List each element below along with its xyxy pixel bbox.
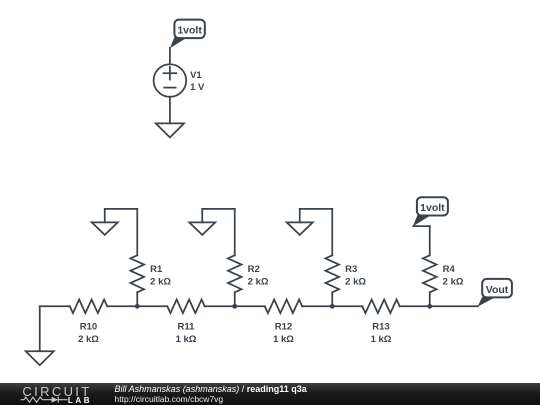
- wire ladder right segment to Vout: [400, 305, 478, 307]
- svg-text:R1: R1: [150, 264, 163, 275]
- wire: [302, 305, 362, 307]
- wire left drop: [39, 306, 41, 351]
- svg-text:R13: R13: [372, 322, 389, 333]
- ground (above R3): [287, 222, 313, 235]
- svg-text:1 V: 1 V: [190, 82, 205, 93]
- wire R2 branch bottom: [234, 292, 236, 306]
- wire top jog: [105, 208, 138, 210]
- wire: [205, 305, 265, 307]
- svg-text:1 kΩ: 1 kΩ: [371, 334, 392, 345]
- svg-text:http://circuitlab.com/cbcw7vg: http://circuitlab.com/cbcw7vg: [115, 394, 224, 404]
- ground (above R1): [92, 222, 118, 235]
- svg-text:R11: R11: [178, 322, 196, 333]
- CircuitLab logo diode arrow: [52, 397, 59, 403]
- wire R3 branch bottom: [331, 292, 333, 306]
- wire top jog: [202, 208, 235, 210]
- node junction x=429.75: [427, 304, 432, 309]
- svg-text:2 kΩ: 2 kΩ: [345, 277, 366, 288]
- svg-text:2 kΩ: 2 kΩ: [443, 277, 464, 288]
- svg-text:R4: R4: [443, 264, 456, 275]
- svg-text:2 kΩ: 2 kΩ: [150, 277, 171, 288]
- wire R4 top jog: [413, 225, 430, 227]
- svg-text:1 kΩ: 1 kΩ: [176, 334, 197, 345]
- svg-text:Vout: Vout: [486, 284, 509, 296]
- svg-text:2 kΩ: 2 kΩ: [78, 334, 99, 345]
- ground (below V1): [156, 123, 184, 137]
- net flag 1volt box (top): [174, 20, 204, 38]
- node junction x=234.75: [232, 304, 237, 309]
- resistor R10: [70, 300, 107, 314]
- svg-text:1 kΩ: 1 kΩ: [273, 334, 294, 345]
- voltage source V1: [154, 64, 187, 97]
- net flag 1volt (R4) tail: [413, 215, 432, 227]
- node junction x=137.25: [135, 304, 140, 309]
- net flag Vout tail: [478, 297, 497, 307]
- resistor R3: [325, 255, 339, 292]
- svg-text:V1: V1: [190, 70, 202, 81]
- resistor R4: [423, 255, 437, 292]
- wire top jog: [300, 208, 333, 210]
- svg-text:LAB: LAB: [68, 396, 92, 405]
- resistor R12: [265, 300, 302, 314]
- wire V1 top: [169, 48, 171, 64]
- resistor R11: [167, 300, 204, 314]
- svg-text:1volt: 1volt: [177, 25, 202, 37]
- net flag Vout box: [482, 279, 512, 298]
- svg-text:R10: R10: [80, 322, 97, 333]
- resistor R2: [228, 255, 242, 292]
- node junction x=332.25: [330, 304, 335, 309]
- svg-text:Bill Ashmanskas (ashmanskas) /: Bill Ashmanskas (ashmanskas) / reading11…: [115, 384, 308, 394]
- wire R1 branch bottom: [136, 292, 138, 306]
- wire R3 branch top: [331, 209, 333, 255]
- svg-text:R2: R2: [248, 264, 260, 275]
- ground (ladder left): [26, 351, 54, 365]
- svg-text:1volt: 1volt: [420, 202, 445, 214]
- net flag 1volt (V1 top) tail: [170, 37, 189, 49]
- wire R2 branch top: [234, 209, 236, 255]
- CircuitLab logo resistor zigzag: [21, 397, 68, 403]
- svg-text:R12: R12: [275, 322, 292, 333]
- wire V1 bottom: [169, 97, 171, 124]
- ground (above R2): [189, 222, 215, 235]
- wire R4 branch bottom: [429, 292, 431, 306]
- resistor R13: [362, 300, 399, 314]
- wire ground stub: [104, 209, 106, 222]
- svg-text:R3: R3: [345, 264, 357, 275]
- wire R1 branch top: [136, 209, 138, 255]
- resistor R1: [130, 255, 144, 292]
- wire ladder left segment: [40, 305, 70, 307]
- wire R4 branch top: [429, 226, 431, 255]
- wire ground stub: [201, 209, 203, 222]
- svg-text:2 kΩ: 2 kΩ: [248, 277, 269, 288]
- wire: [107, 305, 167, 307]
- wire ground stub: [299, 209, 301, 222]
- net flag 1volt box (R4): [417, 197, 448, 215]
